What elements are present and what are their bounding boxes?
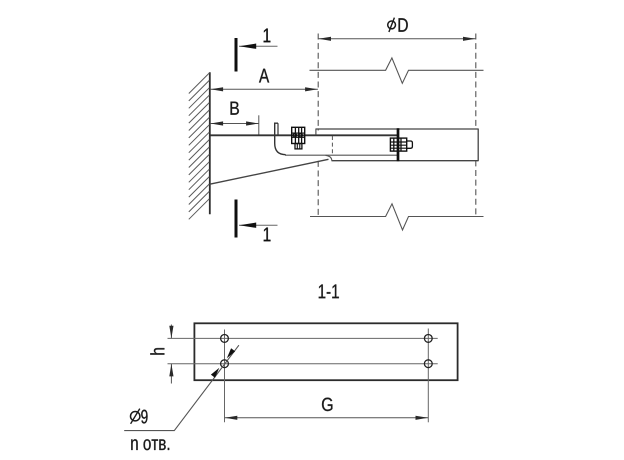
- hole bottom-left: [221, 360, 229, 368]
- label phi9: [131, 409, 148, 424]
- section label 1 bottom: [264, 228, 271, 242]
- duct bottom break: [310, 204, 484, 230]
- bolt M vertical on hook: [292, 127, 305, 149]
- section mark 1 top: [236, 38, 278, 72]
- duct phantom line left: [317, 34, 319, 217]
- label phiD: [388, 18, 408, 32]
- dimension phiD: [318, 37, 476, 41]
- label n holes: [131, 439, 169, 450]
- label B: [231, 102, 239, 115]
- wall face: [209, 72, 211, 214]
- bracket arm top edge: [210, 134, 397, 136]
- clamp band inner edge: [285, 154, 397, 156]
- section title 1-1: [319, 284, 339, 298]
- section mark 1 bottom: [236, 200, 278, 238]
- clamp band bottom edge: [332, 129, 479, 162]
- dimension B: [210, 115, 258, 134]
- section label 1 top: [264, 29, 271, 43]
- label G: [322, 398, 332, 411]
- hole bottom-right: [424, 360, 432, 368]
- leader to hole: [124, 345, 239, 430]
- bolt M horizontal at joint: [390, 138, 412, 151]
- dimension h: [169, 325, 173, 384]
- hole centerline bottom: [168, 363, 438, 365]
- hole top-right: [424, 335, 432, 343]
- clamp band top edge: [316, 129, 478, 136]
- duct phantom line right: [475, 34, 477, 217]
- label A: [259, 69, 269, 83]
- dimension A: [210, 87, 318, 91]
- duct top break: [310, 58, 484, 83]
- clamp band end curve: [326, 155, 332, 160]
- clamp hidden edge dashed: [331, 136, 333, 155]
- clamp joint plate: [397, 128, 400, 161]
- hole top-left: [221, 335, 229, 343]
- hole axis left: [224, 330, 226, 423]
- bracket gusset: [210, 159, 329, 184]
- label h: [150, 348, 164, 355]
- dimension G: [225, 416, 429, 420]
- hole axis right: [427, 329, 429, 423]
- clamp hook J-piece: [275, 123, 286, 155]
- hole centerline top: [168, 337, 438, 339]
- wall hatching: [189, 73, 210, 219]
- plate outline: [194, 323, 457, 380]
